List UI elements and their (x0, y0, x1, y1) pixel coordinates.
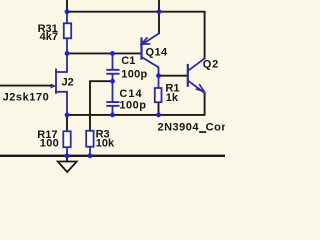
svg-text:100p: 100p (121, 68, 147, 80)
svg-text:4k7: 4k7 (40, 31, 58, 43)
svg-text:2N3904_Con: 2N3904_Con (158, 121, 226, 133)
svg-text:Q14: Q14 (146, 46, 168, 58)
svg-text:1k: 1k (166, 92, 179, 104)
svg-text:10k: 10k (96, 137, 115, 149)
svg-text:J2: J2 (62, 77, 74, 89)
svg-text:Q2: Q2 (203, 59, 219, 71)
svg-text:C14: C14 (119, 88, 142, 100)
svg-text:100: 100 (40, 138, 59, 150)
svg-text:J2sk170: J2sk170 (3, 91, 50, 103)
svg-text:100p: 100p (119, 99, 146, 111)
svg-text:C1: C1 (121, 55, 135, 67)
